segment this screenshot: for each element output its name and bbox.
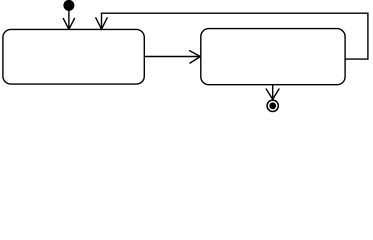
- loop wire from state S2 right edge back around to state S1 top: [102, 13, 368, 59]
- wire initial state to state S1: [68, 10, 70, 29]
- arrowhead into state S2 left edge: [190, 51, 201, 64]
- final state inner dot: [269, 102, 276, 109]
- final state outer ring: [267, 100, 278, 111]
- wire state S1 to state S2: [144, 56, 200, 58]
- state S2 (rounded rectangle): [201, 29, 345, 85]
- state S1 (rounded rectangle): [3, 29, 144, 84]
- initial state (filled circle): [63, 0, 74, 11]
- arrowhead into state S1 top (from loop): [96, 18, 107, 29]
- arrowhead into state S1 top (from initial): [63, 19, 74, 30]
- arrowhead into final state: [266, 89, 279, 99]
- wire state S2 bottom to final state: [272, 85, 274, 99]
